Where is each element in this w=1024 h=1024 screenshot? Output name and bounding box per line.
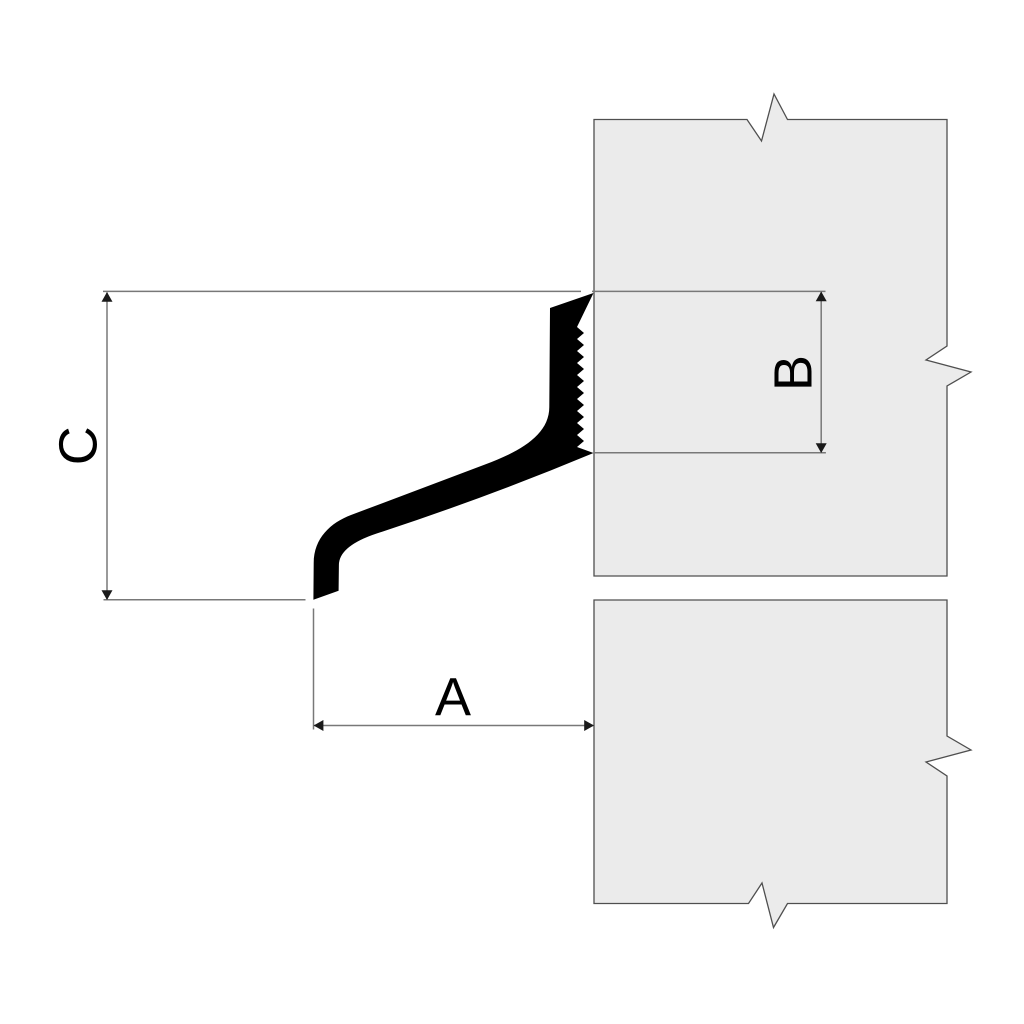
svg-text:A: A [435, 668, 471, 728]
dimension C top arrow [102, 292, 113, 302]
dimension A line [314, 725, 594, 727]
svg-text:C: C [49, 426, 109, 465]
dimension B top arrow [816, 292, 827, 302]
dimension A right arrow [584, 720, 594, 731]
dimension C bottom arrow [102, 590, 113, 600]
upper masonry block with break lines [594, 94, 971, 576]
dimension B bottom arrow [816, 443, 827, 453]
dimension B top extension line [592, 290, 826, 292]
svg-text:B: B [764, 355, 824, 391]
dimension B line [820, 292, 822, 453]
lower masonry block with break lines [594, 600, 971, 928]
anchor tie (black profile with serrated embedded end) [313, 293, 593, 600]
dimension B bottom extension line [594, 452, 826, 454]
dimension A left arrow [314, 720, 324, 731]
dimension C top extension line (shared with B top) [103, 290, 581, 292]
dimension A extension line [313, 609, 315, 730]
dimension C bottom extension line [104, 599, 306, 601]
dimension C line [106, 293, 108, 600]
